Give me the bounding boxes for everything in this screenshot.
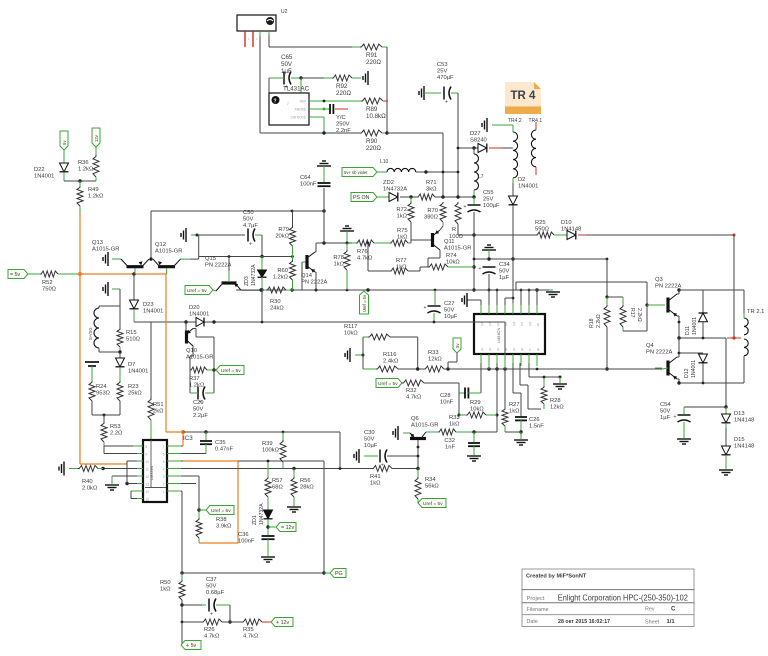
wire R92 to ground <box>352 77 361 79</box>
svg-text:R17: R17 <box>629 308 635 318</box>
svg-text:D22: D22 <box>34 167 45 173</box>
svg-text:R32: R32 <box>406 388 417 394</box>
svg-text:L10: L10 <box>380 159 389 165</box>
svg-text:PS ON: PS ON <box>353 195 370 201</box>
svg-text:A1015-GR: A1015-GR <box>411 423 438 429</box>
svg-text:1N4001: 1N4001 <box>692 317 698 335</box>
svg-text:4.7kΩ: 4.7kΩ <box>357 256 373 262</box>
svg-text:100nF: 100nF <box>238 539 255 545</box>
svg-text:R89: R89 <box>366 106 378 113</box>
svg-text:12kΩ: 12kΩ <box>550 405 564 411</box>
wire rail x607 down <box>606 259 608 297</box>
svg-text:1.5nF: 1.5nF <box>529 424 544 430</box>
IC3 left pin 13 <box>133 483 143 485</box>
svg-text:13: 13 <box>146 483 150 487</box>
flag +5v bottom <box>181 622 183 645</box>
svg-text:R51: R51 <box>153 402 164 408</box>
svg-text:20kΩ: 20kΩ <box>275 234 289 240</box>
svg-text:R90: R90 <box>366 138 378 145</box>
wire IC3 pin6 <box>181 453 206 455</box>
flag =12v at ZD1 <box>276 523 296 532</box>
svg-text:4: 4 <box>163 468 165 472</box>
IC pin top 9 <box>536 303 538 314</box>
svg-text:0.68µF: 0.68µF <box>206 590 225 596</box>
svg-text:D12: D12 <box>684 368 690 378</box>
svg-text:1N4732A: 1N4732A <box>251 264 257 286</box>
rail y211 Q12 collector <box>151 210 324 212</box>
svg-text:220Ω: 220Ω <box>366 59 381 66</box>
svg-text:1kΩ: 1kΩ <box>449 422 460 428</box>
svg-text:1µF: 1µF <box>660 415 671 421</box>
wire R18 bottom <box>606 327 608 369</box>
svg-text:R38: R38 <box>216 517 227 523</box>
svg-text:50V: 50V <box>499 269 509 275</box>
wire R75 to Q11 base col <box>410 238 412 243</box>
wire L10 node <box>416 171 458 173</box>
svg-text:C34: C34 <box>499 262 510 268</box>
IC pin bottom 1 <box>480 354 482 366</box>
svg-text:5: 5 <box>163 460 165 464</box>
svg-text:R26: R26 <box>204 627 215 633</box>
svg-text:D27: D27 <box>470 131 481 137</box>
wire rail y322 through IC to pin4 <box>474 321 505 323</box>
svg-text:25V: 25V <box>483 197 493 203</box>
IC3 right pin 1 <box>167 490 181 492</box>
wire Q12 emitter to C50 node <box>198 235 200 259</box>
svg-text:+: + <box>674 414 677 420</box>
svg-text:50V: 50V <box>364 437 374 443</box>
svg-text:50V: 50V <box>206 584 216 590</box>
svg-text:R91: R91 <box>366 52 378 59</box>
wire R51 into IC3 <box>150 440 152 488</box>
wire pin4 long rail y468.5 <box>181 468 372 470</box>
svg-text:28kΩ: 28kΩ <box>300 485 314 491</box>
svg-text:50V: 50V <box>243 217 253 223</box>
resistor R91 220 <box>360 44 382 50</box>
flag Uref=5v vertical <box>360 291 369 314</box>
rail y322 long <box>134 321 474 323</box>
svg-text:10nF: 10nF <box>440 400 454 406</box>
IC3 left pin 15 <box>133 498 143 500</box>
wire Q6 collector <box>417 447 419 469</box>
rail y290 main <box>236 289 549 291</box>
svg-text:Q4: Q4 <box>646 343 655 349</box>
svg-text:C32: C32 <box>444 438 455 444</box>
svg-text:Sheet: Sheet <box>645 620 660 626</box>
svg-text:D15: D15 <box>734 437 745 443</box>
svg-text:220Ω: 220Ω <box>366 145 381 152</box>
IC3 left pin 8 <box>133 445 143 447</box>
svg-text:R53: R53 <box>110 424 121 430</box>
svg-text:25kΩ: 25kΩ <box>128 391 142 397</box>
ground below C32 <box>467 455 481 457</box>
svg-text:TR4.2: TR4.2 <box>508 118 522 124</box>
ground at TR4.2 <box>486 118 488 132</box>
svg-text:Q11: Q11 <box>444 239 455 245</box>
wire REF row <box>309 100 361 102</box>
svg-text:R34: R34 <box>425 477 436 483</box>
flag 12v vertical <box>92 128 100 147</box>
svg-text:10kΩ: 10kΩ <box>470 407 484 413</box>
resistor R92 220 <box>332 75 352 81</box>
svg-text:PN 2222A: PN 2222A <box>646 350 673 356</box>
wire pin2/pin1 <box>181 483 196 485</box>
wire pin6 x521 jog to R28 bottom <box>519 363 521 385</box>
wire R17 bottom to Q3 base node <box>622 327 624 331</box>
wire CATHODE <box>309 116 324 118</box>
svg-text:Q10: Q10 <box>186 348 197 354</box>
svg-text:C36: C36 <box>238 532 249 538</box>
IC U494CN PWM controller <box>474 314 545 354</box>
wire R91 to node <box>382 46 387 48</box>
svg-text:R49: R49 <box>88 187 99 193</box>
svg-text:U2: U2 <box>281 9 288 15</box>
svg-text:750Ω: 750Ω <box>42 287 57 293</box>
svg-text:10.8kΩ: 10.8kΩ <box>366 113 386 120</box>
svg-text:C65: C65 <box>281 54 293 61</box>
svg-text:U494CN: U494CN <box>496 328 501 343</box>
svg-text:8: 8 <box>146 445 148 449</box>
svg-text:A1015-GR: A1015-GR <box>155 249 182 255</box>
IC3 LM339N comparator <box>143 440 167 502</box>
svg-text:12kΩ: 12kΩ <box>428 357 442 363</box>
IC3 left pin 10 <box>133 460 143 462</box>
svg-text:p12: p12 <box>512 321 516 326</box>
svg-text:1N4732A: 1N4732A <box>383 187 407 193</box>
svg-text:+ 5v: + 5v <box>186 643 197 649</box>
svg-text:100nF: 100nF <box>300 182 317 188</box>
wire to C28 <box>458 383 460 393</box>
wire pin4 x505 to rail and R27 <box>504 363 506 369</box>
svg-text:14: 14 <box>146 490 150 494</box>
wire orange x80 to IC3 <box>79 274 81 464</box>
wire Y/C red stub <box>335 108 348 110</box>
svg-text:2.2kΩ: 2.2kΩ <box>596 314 602 328</box>
svg-text:R25: R25 <box>535 220 546 226</box>
node D22/R36 <box>64 180 96 182</box>
flag PS ON <box>351 193 377 202</box>
opto-coupler U2 <box>237 15 276 31</box>
svg-text:Project: Project <box>527 596 545 602</box>
IC3 right pin 5 <box>167 460 181 462</box>
wire C27 drop <box>434 290 436 305</box>
svg-text:50V: 50V <box>444 308 454 314</box>
IC pin bottom 2 <box>488 354 490 366</box>
svg-text:Created by MiF*SonNT: Created by MiF*SonNT <box>526 574 587 580</box>
svg-text:R23: R23 <box>128 384 139 390</box>
svg-text:R18: R18 <box>589 318 595 328</box>
svg-text:p11: p11 <box>520 321 524 326</box>
IC pin top 15 <box>488 303 490 314</box>
svg-text:C30: C30 <box>364 430 375 436</box>
wire R89 red stub <box>383 100 388 102</box>
wire orange y274 <box>80 273 166 275</box>
svg-text:380Ω: 380Ω <box>424 215 439 221</box>
orange node <box>78 272 82 276</box>
svg-text:953Ω: 953Ω <box>96 391 111 397</box>
wire U2 pin to R90 rail <box>259 31 261 133</box>
svg-text:?: ? <box>274 99 277 105</box>
svg-text:R71: R71 <box>426 180 437 186</box>
svg-text:1.2kΩ: 1.2kΩ <box>78 167 94 173</box>
svg-text:R74: R74 <box>446 253 457 259</box>
svg-text:2.4kΩ: 2.4kΩ <box>383 359 399 365</box>
svg-text:250V: 250V <box>336 122 350 128</box>
svg-text:24kΩ: 24kΩ <box>270 306 284 312</box>
flag Uref=5v at R34 <box>418 499 446 508</box>
IC3 right pin 6 <box>167 453 181 455</box>
svg-text:510Ω: 510Ω <box>126 337 141 343</box>
wire C64 column <box>323 188 325 243</box>
rail y256.5 Q15 collector <box>199 256 293 258</box>
svg-text:D10: D10 <box>561 220 572 226</box>
wire pin1 x481 down to C28 <box>480 363 482 393</box>
svg-text:1N4148: 1N4148 <box>561 227 581 233</box>
wire C65 to TL431 top <box>268 78 270 93</box>
R90 rail <box>260 132 360 134</box>
IC3 left pin 14 <box>133 490 143 492</box>
svg-text:10µF: 10µF <box>364 443 378 449</box>
wire pin top x537 to ground <box>536 290 538 305</box>
node R90/R91 <box>385 131 388 134</box>
IC3 right pin 2 <box>167 483 181 485</box>
wire orange x166 down <box>165 274 167 432</box>
svg-text:+: + <box>445 100 448 106</box>
flag 5v vertical <box>60 131 68 150</box>
transformer tag TR 4 <box>505 82 541 107</box>
svg-text:C27: C27 <box>444 301 455 307</box>
capacitor above R24 <box>85 361 99 363</box>
svg-text:7: 7 <box>163 445 165 449</box>
ground above R78 <box>340 230 354 232</box>
flag Uref=5v at R37 <box>216 366 244 375</box>
IC pin top 16 <box>480 303 482 314</box>
svg-text:1N4001: 1N4001 <box>691 360 697 378</box>
wire y461 black to PG column <box>238 460 324 462</box>
wire R18 top to R17 top <box>607 296 623 298</box>
svg-text:50V: 50V <box>660 409 670 415</box>
svg-text:CATHODE: CATHODE <box>291 116 306 120</box>
svg-text:4.7kΩ: 4.7kΩ <box>243 634 259 640</box>
wire R90 rail to column x443 <box>387 132 443 134</box>
IC3 right pin 7 <box>167 445 181 447</box>
svg-text:R35: R35 <box>243 627 254 633</box>
flag PG <box>330 569 346 578</box>
flag +12v <box>271 618 293 627</box>
ground above SG coil <box>107 282 109 296</box>
svg-text:R76: R76 <box>357 249 368 255</box>
IC3 right pin 4 <box>167 468 181 470</box>
wire pin2 x489 to rail <box>488 363 490 369</box>
wire rail y259 <box>474 258 607 260</box>
collector rail y290 <box>679 289 744 291</box>
svg-text:470µF: 470µF <box>437 75 454 81</box>
svg-text:Uref = 5v: Uref = 5v <box>221 368 241 374</box>
ground at R28 row <box>559 377 561 383</box>
svg-text:R92: R92 <box>336 83 348 90</box>
rail y622 <box>182 621 202 623</box>
svg-text:R75: R75 <box>397 228 408 234</box>
flag Uref=5v at R38 <box>206 506 234 515</box>
wire y432 to C30 col <box>206 431 340 433</box>
wire C53 to 5VSB rail <box>457 93 459 197</box>
IC pin bottom 7 <box>528 354 530 366</box>
svg-text:1: 1 <box>163 490 165 494</box>
svg-text:C35: C35 <box>215 440 226 446</box>
svg-text:C37: C37 <box>206 577 217 583</box>
svg-text:= 12v: = 12v <box>281 525 294 531</box>
svg-text:p10: p10 <box>528 321 532 326</box>
svg-text:+: + <box>464 204 467 210</box>
resistor R89 10.8k <box>361 98 383 104</box>
ground below C36 <box>261 556 275 558</box>
svg-text:2.2µF: 2.2µF <box>193 413 208 419</box>
svg-text:R33: R33 <box>428 350 439 356</box>
svg-text:Uref = 5v: Uref = 5v <box>362 294 367 312</box>
svg-text:R15: R15 <box>126 330 137 336</box>
ground IC3 <box>105 484 119 486</box>
ground right of IC top <box>546 291 560 293</box>
svg-text:12v: 12v <box>94 134 99 142</box>
ground below R56 <box>287 506 301 508</box>
svg-text:+ 12v: + 12v <box>276 620 289 626</box>
svg-text:1.2kΩ: 1.2kΩ <box>273 275 289 281</box>
svg-text:D7: D7 <box>128 362 135 368</box>
svg-text:Date: Date <box>527 619 538 625</box>
svg-text:2: 2 <box>163 483 165 487</box>
svg-text:R56: R56 <box>300 478 311 484</box>
wire pin7 x529 to R28 top row <box>528 363 530 377</box>
wire IC top pin16 to ground <box>480 300 482 305</box>
svg-text:ANODE: ANODE <box>295 108 306 112</box>
svg-text:1.2kΩ: 1.2kΩ <box>88 194 104 200</box>
svg-text:R60: R60 <box>277 268 288 274</box>
svg-text:REF: REF <box>300 100 306 104</box>
svg-text:1kΩ: 1kΩ <box>397 214 408 220</box>
rail y338 center tap <box>679 337 726 339</box>
svg-text:56kΩ: 56kΩ <box>425 484 439 490</box>
svg-text:Enlight Corporation HPC-(250-3: Enlight Corporation HPC-(250-350)-102 <box>558 594 688 603</box>
ground below D15 <box>719 469 733 471</box>
ground left R117 <box>349 348 351 362</box>
U2 pins (red) <box>244 31 246 47</box>
IC pin top 14 <box>496 303 498 314</box>
svg-text:D2: D2 <box>518 177 525 183</box>
svg-text:Rev: Rev <box>645 607 655 613</box>
IC pin top 12 <box>512 303 514 314</box>
red stub to TR2.1 <box>727 337 741 339</box>
svg-text:100kΩ: 100kΩ <box>262 448 280 454</box>
svg-text:R79: R79 <box>278 227 289 233</box>
wire x726 to D13 <box>725 338 727 407</box>
svg-text:50V: 50V <box>193 407 203 413</box>
wire right rail x387 <box>386 47 388 133</box>
svg-text:C54: C54 <box>660 402 671 408</box>
svg-text:1N4001: 1N4001 <box>34 174 54 180</box>
svg-text:68Ω: 68Ω <box>272 485 283 491</box>
svg-text:5v+ sb violet: 5v+ sb violet <box>344 170 368 175</box>
svg-text:R72: R72 <box>396 207 407 213</box>
wire node to REF <box>300 78 302 101</box>
svg-text:25V: 25V <box>437 69 447 75</box>
svg-text:= 5v: = 5v <box>10 272 21 278</box>
svg-text:6: 6 <box>163 453 165 457</box>
title block <box>522 569 694 627</box>
resistor R17 2.2k <box>620 305 626 327</box>
wire rail y282 to Q3 base <box>516 281 647 283</box>
svg-text:R27: R27 <box>509 402 520 408</box>
svg-text:R30: R30 <box>270 299 281 305</box>
svg-text:100µF: 100µF <box>483 203 500 209</box>
svg-text:R36: R36 <box>78 160 89 166</box>
svg-text:10: 10 <box>146 460 150 464</box>
svg-text:C53: C53 <box>437 62 448 68</box>
IC pin top 13 <box>504 303 506 314</box>
svg-text:C64: C64 <box>300 175 311 181</box>
flag 5v+ sb violet <box>342 168 377 177</box>
wire R53 to IC3 pin <box>104 445 137 447</box>
wire y369 continues to Q4 base <box>537 368 607 370</box>
wires into IC3 left <box>104 453 137 455</box>
svg-text:7: 7 <box>287 102 289 106</box>
svg-text:1N4001: 1N4001 <box>518 184 538 190</box>
rail y369 under IC <box>489 368 537 370</box>
svg-text:A1015-GR: A1015-GR <box>444 246 471 252</box>
svg-text:Q15: Q15 <box>205 256 216 262</box>
svg-text:+: + <box>210 612 213 618</box>
svg-text:4.7kΩ: 4.7kΩ <box>406 395 422 401</box>
wire ZD3 node down to rail <box>261 290 263 322</box>
wire pin5 x513 jog to C26 <box>512 363 514 393</box>
flag Uref=5v at R32 <box>376 379 402 388</box>
svg-text:+: + <box>479 266 482 272</box>
svg-text:1nF: 1nF <box>445 445 455 451</box>
svg-text:1kΩ: 1kΩ <box>397 235 408 241</box>
svg-text:Q13: Q13 <box>92 240 103 246</box>
IC pin bottom 8 <box>536 354 538 366</box>
svg-text:A1015-GR: A1015-GR <box>92 247 119 253</box>
svg-text:2.2Ω: 2.2Ω <box>110 431 123 437</box>
svg-text:R37: R37 <box>189 376 200 382</box>
svg-text:PN 2222A: PN 2222A <box>655 284 682 290</box>
wire orange x80 down <box>79 213 81 274</box>
wire pin3 to R38 node <box>181 475 199 477</box>
wires out of IC3 right <box>181 445 183 447</box>
svg-text:R33: R33 <box>449 415 460 421</box>
svg-text:10µF: 10µF <box>444 314 458 320</box>
svg-text:R41: R41 <box>370 474 381 480</box>
flag =5v <box>8 270 28 279</box>
svg-text:C26: C26 <box>529 417 540 423</box>
svg-text:ZD3: ZD3 <box>244 276 250 286</box>
svg-text:PN 2222A: PN 2222A <box>205 263 232 269</box>
svg-text:0.47nF: 0.47nF <box>215 447 234 453</box>
svg-text:9: 9 <box>146 453 148 457</box>
svg-text:10kΩ: 10kΩ <box>344 331 358 337</box>
svg-text:C50: C50 <box>243 210 254 216</box>
svg-text:Uref = 5v: Uref = 5v <box>378 381 398 387</box>
wire U2 pin to R91 <box>268 31 270 47</box>
IC pin top 10 <box>528 303 530 314</box>
wire to R92 <box>301 77 332 79</box>
svg-text:PN 2222A: PN 2222A <box>301 280 328 286</box>
svg-text:PG: PG <box>335 571 343 577</box>
svg-text:TR 2.1: TR 2.1 <box>747 309 764 315</box>
ground above C34 <box>482 249 496 251</box>
svg-text:15: 15 <box>146 498 150 502</box>
bottom joining wire <box>91 401 93 415</box>
ground left of pin16 <box>466 293 468 307</box>
